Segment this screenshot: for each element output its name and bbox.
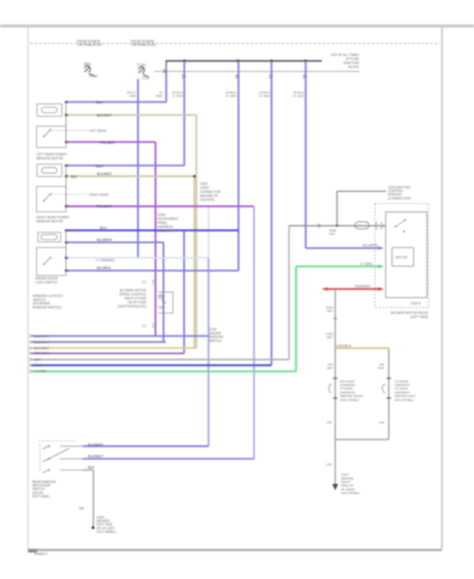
svg-text:SWITCH: SWITCH	[209, 339, 222, 343]
svg-text:KICK PANEL): KICK PANEL)	[97, 530, 117, 534]
svg-text:PPL/WHT: PPL/WHT	[34, 352, 49, 356]
svg-text:WINDOW MOTOR: WINDOW MOTOR	[36, 157, 63, 161]
svg-text:JUNCTION BLOCK): JUNCTION BLOCK)	[118, 304, 147, 308]
svg-text:BLK/WHT: BLK/WHT	[34, 346, 49, 350]
svg-text:BLU/WHT: BLU/WHT	[88, 455, 103, 459]
svg-text:GRY: GRY	[34, 358, 42, 362]
svg-text:150: 150	[327, 462, 332, 466]
svg-text:BLU/WHT: BLU/WHT	[34, 340, 49, 344]
svg-text:BLK: BLK	[327, 366, 334, 370]
svg-text:PPL/WHT: PPL/WHT	[96, 205, 111, 209]
svg-text:BLU/WHT: BLU/WHT	[34, 334, 49, 338]
svg-text:BLK: BLK	[378, 366, 385, 370]
svg-text:LT GRN: LT GRN	[225, 94, 236, 98]
svg-text:15A: 15A	[158, 306, 165, 310]
svg-text:LT GRN/RED: LT GRN/RED	[96, 259, 116, 263]
svg-text:DISTRIBUTION: DISTRIBUTION	[132, 43, 156, 47]
svg-text:GRY: GRY	[326, 336, 333, 340]
svg-text:BLU: BLU	[34, 364, 41, 368]
svg-text:BLK: BLK	[88, 466, 95, 470]
svg-text:F2.9: F2.9	[143, 77, 150, 81]
svg-text:GRY: GRY	[326, 309, 333, 313]
svg-text:(LEFT SIDE): (LEFT SIDE)	[410, 315, 428, 319]
svg-text:BLU/BLK: BLU/BLK	[97, 266, 112, 270]
svg-text:LT GRN: LT GRN	[360, 262, 373, 266]
svg-text:LOCK SWITCH: LOCK SWITCH	[35, 280, 58, 284]
svg-text:LT GRN: LT GRN	[259, 94, 270, 98]
svg-text:RED: RED	[156, 94, 163, 98]
svg-text:LT GRN: LT GRN	[34, 370, 47, 374]
svg-text:WINDOW SWITCH): WINDOW SWITCH)	[33, 305, 62, 309]
svg-text:GRY: GRY	[329, 232, 336, 236]
svg-text:30A: 30A	[84, 62, 92, 67]
svg-text:BLU: BLU	[96, 101, 103, 105]
svg-text:C290 A: C290 A	[410, 302, 421, 306]
svg-text:ORG/BLK: ORG/BLK	[337, 344, 353, 348]
svg-text:BLU/WHT: BLU/WHT	[88, 443, 103, 447]
svg-text:F2.30: F2.30	[89, 75, 98, 79]
svg-text:GRN: GRN	[129, 94, 136, 98]
svg-text:BLU: BLU	[96, 165, 103, 169]
svg-text:RED/WHT: RED/WHT	[355, 285, 371, 289]
svg-text:WINDOW MOTOR: WINDOW MOTOR	[36, 220, 63, 224]
svg-text:150: 150	[79, 507, 85, 511]
svg-text:MOTOR: MOTOR	[396, 256, 409, 260]
svg-text:CENTER): CENTER)	[200, 198, 214, 202]
svg-text:PPL/WHT: PPL/WHT	[100, 141, 115, 145]
svg-text:BLU/WHT: BLU/WHT	[97, 238, 112, 242]
svg-text:150: 150	[327, 420, 332, 424]
svg-text:BLOCK: BLOCK	[348, 65, 360, 69]
svg-text:BLU/RED: BLU/RED	[363, 244, 378, 248]
svg-text:LT GRN: LT GRN	[172, 94, 183, 98]
svg-text:C1: C1	[142, 280, 146, 284]
svg-text:KICK PANEL): KICK PANEL)	[340, 398, 359, 402]
svg-text:RIGHT REAR: RIGHT REAR	[89, 193, 109, 197]
svg-text:(CONNECTOR): (CONNECTOR)	[388, 196, 411, 200]
svg-text:C2: C2	[142, 324, 146, 328]
svg-text:BLK/WHT: BLK/WHT	[97, 114, 112, 118]
svg-text:LEFT REAR: LEFT REAR	[89, 129, 107, 133]
svg-text:KICK PANEL): KICK PANEL)	[341, 491, 360, 495]
svg-text:KICK PANEL): KICK PANEL)	[395, 398, 414, 402]
svg-text:LT GRN: LT GRN	[293, 94, 304, 98]
svg-text:54AB3-2: 54AB3-2	[34, 552, 47, 556]
svg-text:BLK/WHT: BLK/WHT	[97, 172, 112, 176]
svg-text:(NEAR I/P): (NEAR I/P)	[158, 229, 174, 233]
svg-text:150: 150	[379, 420, 384, 424]
svg-text:DISTRIBUTION: DISTRIBUTION	[78, 43, 102, 47]
svg-text:7.5A: 7.5A	[137, 63, 146, 68]
svg-text:LEFT SIDE): LEFT SIDE)	[32, 495, 49, 499]
svg-text:504: 504	[71, 175, 77, 179]
svg-text:BLU: BLU	[100, 226, 107, 230]
